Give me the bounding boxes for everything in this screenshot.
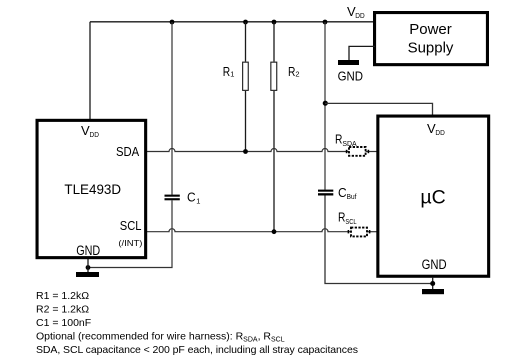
svg-text:Power: Power [409, 21, 452, 38]
junction node R2/SCL [272, 229, 277, 234]
wire SCL into uC [367, 231, 377, 233]
svg-text:DD: DD [90, 130, 100, 139]
svg-text:R: R [223, 64, 230, 79]
svg-text:SDA: SDA [342, 139, 356, 148]
junction node uC ground [430, 281, 435, 286]
wire C1 upper branch [171, 22, 173, 195]
svg-text:C1 = 100nF: C1 = 100nF [36, 317, 91, 329]
svg-text:R: R [335, 132, 342, 147]
junction node R1/SDA [243, 149, 248, 154]
svg-text:TLE493D: TLE493D [64, 181, 121, 197]
svg-text:1: 1 [196, 197, 200, 206]
svg-text:R: R [338, 210, 345, 225]
junction node R1 top [243, 20, 248, 25]
IC uC box [378, 116, 489, 276]
svg-text:R: R [288, 64, 295, 79]
svg-text:SCL: SCL [345, 217, 356, 226]
wire CBuf lower branch / ground to uC [325, 196, 433, 284]
wire SCL (with hops over crossings) [146, 229, 351, 232]
junction node R2 top [272, 20, 277, 25]
svg-text:GND: GND [422, 257, 447, 272]
ground power supply (bar) [338, 60, 359, 65]
wire uC GND stub [432, 277, 434, 290]
svg-text:1: 1 [230, 70, 234, 79]
resistor RSCL (optional, dashed) [351, 228, 367, 237]
svg-text:SDA, SCL capacitance < 200 pF: SDA, SCL capacitance < 200 pF each, incl… [36, 344, 358, 355]
wire power supply GND [349, 46, 375, 60]
capacitor C1 [165, 195, 180, 201]
svg-text:C: C [187, 190, 196, 205]
wire SDA into uC [366, 151, 378, 153]
wire VDD drop to TLE493D [89, 22, 91, 120]
wire to uC VDD [325, 103, 433, 116]
capacitor CBuf [318, 190, 333, 196]
resistor RSDA (optional, dashed) [349, 147, 366, 156]
junction node VDD/C1 branch [170, 20, 175, 25]
IC TLE493D box [37, 120, 146, 257]
svg-text:µC: µC [420, 187, 445, 209]
svg-text:Buf: Buf [347, 192, 358, 201]
junction node VDD branch [323, 20, 328, 25]
svg-text:GND: GND [338, 69, 363, 84]
svg-text:(/INT): (/INT) [118, 238, 142, 248]
svg-text:R1 = 1.2kΩ: R1 = 1.2kΩ [36, 290, 89, 302]
svg-text:DD: DD [435, 128, 445, 137]
junction node uC VDD branch [323, 101, 328, 106]
svg-text:DD: DD [355, 11, 365, 20]
resistor R2 [271, 22, 277, 232]
junction node TLE493D ground [86, 265, 91, 270]
ground uC (bar) [422, 289, 444, 294]
svg-text:R2 = 1.2kΩ: R2 = 1.2kΩ [36, 304, 89, 316]
svg-text:Supply: Supply [408, 40, 454, 57]
wire TLE493D GND stub [87, 258, 89, 272]
wire VDD rail (top horizontal) [90, 21, 374, 23]
svg-text:GND: GND [76, 243, 100, 258]
wire C1 lower branch to ground return [88, 200, 172, 267]
resistor R1 [243, 22, 249, 152]
svg-text:SDA: SDA [116, 144, 139, 159]
svg-text:2: 2 [295, 70, 299, 79]
ground TLE493D (bar) [76, 272, 99, 277]
wire VDD branch down [324, 22, 326, 190]
svg-text:SCL: SCL [120, 218, 142, 233]
svg-text:C: C [338, 185, 347, 200]
power supply box [375, 13, 488, 65]
wire SDA (with hops over crossings) [146, 149, 350, 152]
